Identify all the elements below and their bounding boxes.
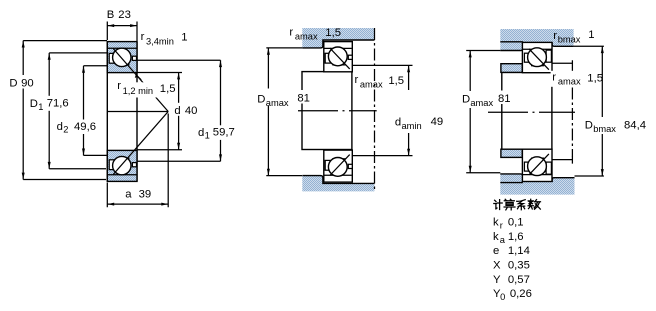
ra extension line + tick (top)	[552, 60, 573, 67]
svg-text:1,5: 1,5	[587, 72, 603, 84]
housing top slab machined edges	[500, 42, 573, 51]
svg-text:r: r	[500, 221, 503, 231]
dimension D1: arrows	[48, 53, 51, 60]
svg-text:d: d	[395, 117, 401, 129]
svg-text:84,4: 84,4	[624, 119, 646, 131]
svg-text:a: a	[125, 189, 132, 201]
svg-text:r: r	[355, 74, 359, 86]
svg-text:r: r	[552, 72, 556, 84]
svg-text:D: D	[585, 120, 593, 132]
label Dbmax 84,4	[583, 117, 618, 134]
svg-text:Y: Y	[493, 274, 501, 286]
contact angle line upper	[113, 49, 168, 112]
svg-text:X: X	[493, 260, 501, 272]
svg-text:d: d	[198, 127, 204, 139]
svg-text:1: 1	[181, 32, 187, 44]
hanzi: suan	[504, 199, 515, 210]
dimension Da: dimension line	[469, 51, 471, 173]
svg-text:amax: amax	[558, 77, 581, 87]
contact angle line lower	[113, 112, 168, 175]
svg-text:D: D	[9, 78, 17, 90]
dimension d1: dimension line	[220, 60, 222, 161]
ra extension line + tick (bottom)	[552, 157, 573, 164]
dimension da: arrows	[407, 66, 410, 73]
svg-text:e: e	[493, 245, 499, 257]
dimension d: extension lines	[137, 73, 182, 150]
svg-text:amax: amax	[470, 98, 493, 108]
dimension Da: arrows	[469, 51, 472, 58]
svg-text:0,1: 0,1	[508, 217, 524, 229]
dimension D: arrows	[22, 41, 25, 48]
centerline vertical (shoulder plane)	[571, 67, 573, 157]
dimension d2: arrows	[82, 66, 85, 73]
svg-text:3,4min: 3,4min	[146, 36, 174, 46]
centerline vertical (shoulder plane)	[374, 28, 376, 191]
label D1 71,6	[28, 96, 70, 111]
centerline axis	[298, 110, 377, 112]
dimension D1: dimension line	[48, 53, 50, 169]
svg-text:k: k	[493, 217, 499, 229]
bearing left face line	[106, 42, 108, 182]
dimension Db: extension lines	[574, 46, 604, 176]
svg-text:B: B	[107, 9, 115, 21]
label D 90	[7, 75, 37, 89]
dimension d: dimension line	[178, 73, 180, 150]
label r amax 1,5 (right)	[551, 71, 584, 87]
lower bearing section (outer+inner ring, blue)	[107, 150, 137, 181]
shaft section	[302, 72, 352, 150]
shaft shoulder bottom	[501, 149, 522, 157]
housing top slab	[500, 29, 573, 51]
label Damax 81	[256, 89, 289, 106]
dimension Db: arrows	[601, 46, 604, 53]
svg-text:amin: amin	[402, 121, 422, 131]
dimension D: extension lines	[23, 41, 107, 180]
svg-text:2: 2	[63, 125, 68, 135]
housing top slab	[302, 28, 374, 48]
svg-text:bmax: bmax	[593, 124, 616, 134]
heading: Chinese characters (calculation factors) drawn as strokes	[494, 199, 541, 210]
svg-text:r: r	[141, 31, 145, 43]
svg-text:1,5: 1,5	[325, 27, 341, 39]
svg-text:1,5: 1,5	[160, 83, 176, 95]
dimension Da: arrows	[267, 48, 270, 55]
dimension d1: arrows	[219, 60, 222, 67]
housing top slab machined edges	[302, 40, 374, 48]
svg-text:r: r	[289, 26, 293, 38]
hanzi: xi	[517, 200, 526, 210]
svg-text:1: 1	[588, 29, 594, 41]
svg-text:bmax: bmax	[558, 35, 581, 45]
upper bearing section (white)	[522, 42, 552, 72]
label d2 49,6	[55, 120, 96, 135]
housing bottom slab machined edges	[500, 174, 574, 183]
dimension a: dimension line	[107, 203, 168, 205]
dimension Da: extension lines	[266, 48, 302, 176]
dimension B: left arrow	[108, 24, 115, 27]
upper bearing section (outer+inner ring, blue)	[107, 42, 137, 73]
dimension D1: extension lines	[49, 53, 107, 169]
dimension a: arrows	[108, 203, 115, 206]
svg-text:k: k	[493, 231, 499, 243]
dimension Da: extension lines	[466, 51, 500, 173]
svg-text:81: 81	[297, 93, 310, 105]
housing bottom slab	[500, 174, 574, 195]
shaft section	[502, 72, 552, 149]
dimension da: extension lines	[352, 65, 413, 155]
dimension B: extension lines	[107, 22, 137, 42]
housing bottom slab machined edges	[302, 176, 374, 184]
dimension da: dimension line (two segments)	[408, 65, 410, 155]
svg-text:r: r	[117, 80, 121, 92]
svg-text:r: r	[553, 30, 557, 42]
dimension Da: dimension line	[267, 48, 269, 176]
svg-text:0: 0	[500, 292, 505, 302]
svg-text:1: 1	[205, 130, 210, 140]
lower bearing section (white)	[324, 150, 353, 182]
svg-text:59,7: 59,7	[213, 127, 235, 139]
svg-text:1: 1	[38, 102, 43, 112]
bearing right face line	[136, 42, 138, 182]
svg-text:49: 49	[431, 116, 444, 128]
label r 1,2 min 1,5	[115, 82, 158, 97]
svg-text:40: 40	[185, 105, 198, 117]
svg-text:amax: amax	[360, 79, 383, 89]
svg-text:23: 23	[118, 9, 131, 21]
svg-text:amax: amax	[295, 32, 318, 42]
dimension d: arrows	[177, 73, 180, 80]
hanzi: ji	[494, 200, 502, 210]
svg-text:d: d	[174, 105, 180, 117]
centerline axis	[488, 111, 577, 113]
svg-text:D: D	[257, 94, 265, 106]
dimension d2: dimension line	[83, 66, 85, 156]
label d 40	[173, 103, 201, 116]
svg-text:81: 81	[498, 93, 511, 105]
svg-text:a: a	[500, 235, 506, 245]
r1,2 corner arrow	[135, 73, 138, 78]
lower bearing section (white)	[522, 149, 552, 181]
svg-text:39: 39	[139, 189, 152, 201]
dimension Db: dimension line	[601, 46, 603, 176]
svg-text:1,2 min: 1,2 min	[123, 86, 154, 96]
dimension a: extension lines	[107, 114, 168, 208]
housing bottom slab	[302, 176, 374, 192]
dimension d1: extension lines	[137, 60, 221, 161]
svg-text:0,26: 0,26	[510, 288, 532, 300]
dimension B: right arrow	[130, 24, 137, 27]
hanzi: shu	[528, 199, 540, 209]
svg-text:amax: amax	[266, 98, 289, 108]
svg-text:0,35: 0,35	[508, 260, 530, 272]
svg-text:1,14: 1,14	[508, 245, 530, 257]
svg-text:71,6: 71,6	[47, 98, 69, 110]
dimension D: dimension line	[22, 41, 24, 180]
svg-text:49,6: 49,6	[74, 121, 96, 133]
svg-text:D: D	[30, 98, 38, 110]
svg-text:1,5: 1,5	[388, 75, 404, 87]
label Damax 81	[460, 91, 493, 108]
axis line to apex	[107, 111, 168, 113]
dimension d2: extension lines	[84, 66, 108, 156]
shaft shoulder top	[501, 64, 522, 73]
svg-text:0,57: 0,57	[508, 274, 530, 286]
svg-text:D: D	[462, 94, 470, 106]
label d1 59,7	[196, 125, 237, 140]
svg-text:d: d	[57, 121, 63, 133]
upper bearing section (white)	[324, 42, 353, 72]
svg-text:1,6: 1,6	[508, 231, 524, 243]
svg-text:90: 90	[21, 78, 34, 90]
dimension B: dimension line	[107, 25, 137, 27]
